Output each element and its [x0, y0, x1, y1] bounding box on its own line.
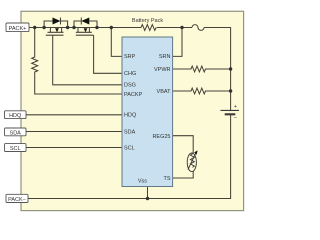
- transistor Q2: [76, 28, 122, 74]
- node PACK-: [6, 194, 28, 203]
- svg-text:SDA: SDA: [124, 130, 136, 136]
- wire SRN: [173, 28, 182, 57]
- svg-text:HDQ: HDQ: [124, 113, 137, 119]
- wire Vss: [147, 187, 149, 199]
- wire: [157, 27, 192, 29]
- node dot: [146, 197, 149, 200]
- fuse F1: [192, 25, 204, 31]
- node dot: [66, 26, 69, 29]
- svg-text:VBAT: VBAT: [157, 89, 172, 95]
- node dot: [229, 89, 232, 92]
- svg-text:PACKP: PACKP: [124, 92, 143, 98]
- node dot: [42, 26, 45, 29]
- svg-text:SCL: SCL: [10, 146, 21, 152]
- svg-text:Vss: Vss: [138, 178, 147, 184]
- wire REG25: [173, 136, 194, 154]
- svg-text:VPWR: VPWR: [154, 67, 171, 73]
- transistor Q2 arrow: [84, 28, 88, 32]
- node PACK+: [6, 23, 29, 32]
- resistor VPWR: [173, 66, 231, 72]
- resistor sense (Battery Pack): [141, 25, 156, 31]
- svg-text:+: +: [234, 104, 237, 110]
- svg-text:HDQ: HDQ: [9, 113, 22, 119]
- wire SDA: [26, 131, 122, 133]
- wire TS: [173, 171, 194, 178]
- transistor Q1: [46, 28, 122, 85]
- diode D2 body: [74, 18, 97, 28]
- svg-text:SCL: SCL: [124, 146, 135, 152]
- wire battery minus to PACK- rail: [28, 115, 231, 199]
- wire SCL: [26, 147, 122, 149]
- node dot: [95, 26, 98, 29]
- svg-text:PACK+: PACK+: [9, 26, 27, 32]
- wire HDQ: [26, 114, 122, 116]
- svg-text:PACK−: PACK−: [8, 197, 26, 203]
- svg-text:−: −: [234, 115, 237, 121]
- node SDA: [5, 128, 27, 136]
- svg-text:SRP: SRP: [124, 54, 136, 60]
- node dot: [72, 26, 75, 29]
- wire SRP: [111, 28, 122, 57]
- battery BT1 plates: [221, 109, 240, 111]
- transistor Q1 arrow: [55, 28, 59, 32]
- wire PACK+ rail: [29, 27, 141, 29]
- node dot: [180, 26, 183, 29]
- node dot: [33, 26, 36, 29]
- diode D2 triangle: [81, 18, 89, 25]
- diode D1 triangle: [53, 18, 61, 25]
- node dot: [229, 67, 232, 70]
- svg-text:REG25: REG25: [152, 134, 170, 140]
- thermistor RT1: [187, 153, 196, 172]
- resistor R1 (PACK+ to PACKP): [32, 28, 122, 95]
- svg-text:TS: TS: [163, 176, 170, 182]
- svg-text:SDA: SDA: [10, 130, 22, 136]
- svg-text:SRN: SRN: [159, 54, 171, 60]
- wire top-right to battery: [204, 28, 231, 111]
- node HDQ: [5, 111, 27, 119]
- resistor VBAT: [173, 88, 231, 94]
- node SCL: [5, 144, 27, 153]
- node dot: [110, 26, 113, 29]
- svg-text:DSG: DSG: [124, 82, 136, 88]
- svg-text:CHG: CHG: [124, 71, 136, 77]
- svg-text:Battery Pack: Battery Pack: [132, 18, 163, 24]
- schematic frame: [21, 11, 244, 210]
- IC U1 bq gas gauge: [122, 37, 173, 187]
- diode D1 body: [44, 18, 68, 28]
